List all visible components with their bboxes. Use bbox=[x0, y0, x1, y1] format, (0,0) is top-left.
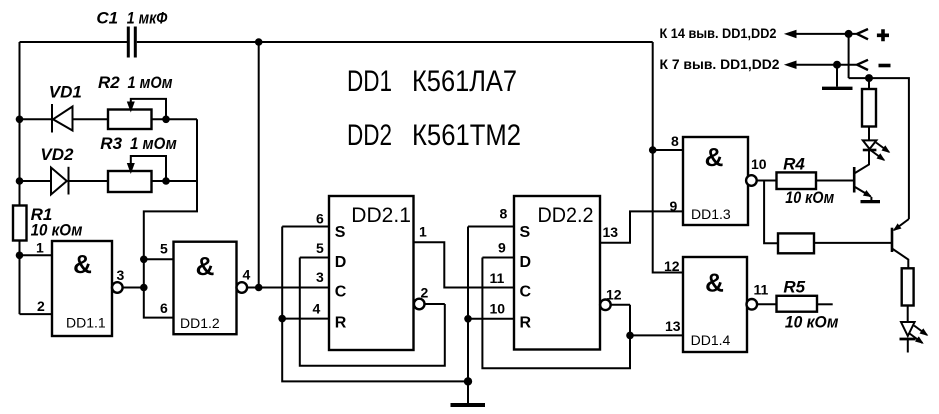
wire R6 to Q2 base bbox=[814, 242, 892, 244]
svg-text:S: S bbox=[335, 224, 346, 241]
svg-text:DD1.3: DD1.3 bbox=[691, 206, 731, 222]
ground minus bbox=[822, 87, 853, 90]
svg-text:S: S bbox=[520, 224, 531, 241]
svg-text:DD1.4: DD1.4 bbox=[691, 332, 731, 348]
gate DD1.3 labels bbox=[670, 133, 767, 222]
wire DD2.1 D stub bbox=[300, 257, 329, 259]
node R1 bottom pin1 bbox=[16, 252, 24, 260]
svg-text:К561ЛА7: К561ЛА7 bbox=[412, 65, 517, 98]
node pin3 tie bbox=[140, 284, 148, 292]
svg-text:6: 6 bbox=[160, 300, 168, 316]
wire R2 wiper arm bbox=[127, 99, 166, 119]
potentiometer R3 bbox=[108, 171, 152, 192]
minus symbol bbox=[879, 64, 891, 68]
label R3 bbox=[100, 134, 177, 153]
svg-text:12: 12 bbox=[606, 287, 622, 303]
node VD2 left bbox=[16, 177, 24, 185]
label DD2 type bbox=[347, 119, 521, 152]
svg-text:C: C bbox=[520, 284, 532, 301]
svg-text:9: 9 bbox=[670, 198, 678, 214]
transistor Q1 bbox=[854, 151, 871, 200]
gate DD1.1 bbox=[52, 241, 112, 336]
power arrow line K14 bbox=[784, 30, 857, 38]
node ground junction bbox=[464, 377, 472, 385]
node DD2.2 R tie bbox=[464, 315, 472, 323]
wire R4 to Q1 base bbox=[816, 180, 854, 182]
resistor lower right bbox=[902, 268, 914, 305]
wire DD2.2 S stub bbox=[468, 226, 514, 228]
svg-text:2: 2 bbox=[421, 284, 429, 300]
node K7 junction bbox=[833, 61, 841, 69]
gate DD1.2 labels bbox=[160, 240, 251, 331]
gate DD1.2 bbox=[174, 242, 237, 335]
resistor R6 bbox=[778, 233, 814, 253]
svg-text:&: & bbox=[73, 249, 92, 279]
wire DD2.2 D stub bbox=[482, 257, 514, 259]
power arrow line K7 bbox=[784, 61, 857, 70]
wire top horizontal bbox=[20, 41, 653, 43]
flip-flop DD2.1 labels bbox=[313, 204, 429, 332]
label DD1 type bbox=[347, 65, 517, 98]
svg-text:13: 13 bbox=[665, 318, 681, 334]
label R2 bbox=[98, 73, 173, 92]
ground Q1 emitter bbox=[861, 200, 881, 203]
potentiometer R2 bbox=[108, 110, 152, 130]
svg-text:DD1.1: DD1.1 bbox=[66, 314, 106, 330]
svg-text:2: 2 bbox=[37, 298, 45, 314]
diode VD2 bbox=[51, 167, 69, 195]
svg-text:8: 8 bbox=[671, 133, 679, 149]
label K7 bbox=[660, 56, 780, 72]
node VD1 left bbox=[16, 116, 24, 124]
svg-text:10: 10 bbox=[490, 301, 506, 317]
gate DD1.1 labels bbox=[36, 239, 125, 330]
svg-text:&: & bbox=[196, 251, 215, 281]
svg-text:&: & bbox=[705, 267, 724, 297]
svg-text:DD2.1: DD2.1 bbox=[351, 204, 411, 227]
wire pin8 stub bbox=[653, 149, 683, 151]
svg-text:VD2: VD2 bbox=[40, 145, 74, 164]
output circle DD1.3 pin10 bbox=[746, 175, 757, 186]
wire pin4 to DD2.1 C bbox=[247, 287, 329, 289]
output circle DD2.1 pin2 bbox=[414, 299, 425, 310]
svg-text:C: C bbox=[335, 284, 347, 301]
node main row bbox=[255, 284, 263, 292]
svg-text:11: 11 bbox=[490, 270, 505, 286]
wire resistor top to plus rail bbox=[868, 78, 870, 89]
contact minus bbox=[857, 60, 868, 70]
svg-text:DD1: DD1 bbox=[347, 65, 392, 98]
svg-text:6: 6 bbox=[316, 211, 324, 227]
wire pin11 to R5 bbox=[757, 303, 776, 305]
svg-text:R: R bbox=[520, 315, 532, 332]
wire minus to ground bbox=[836, 65, 838, 87]
flip-flop DD2.2 bbox=[514, 196, 600, 350]
svg-text:12: 12 bbox=[664, 258, 680, 274]
svg-text:5: 5 bbox=[160, 240, 168, 256]
output circle DD2.2 pin12 bbox=[600, 300, 611, 311]
LED VD3 emission arrows bbox=[871, 143, 889, 161]
node pin5 tie bbox=[140, 255, 148, 263]
wire pin10 branch to R6 bbox=[764, 181, 778, 244]
wire DD2.1 pin1 to DD2.2 C bbox=[414, 242, 515, 287]
svg-text:10 кОм: 10 кОм bbox=[785, 312, 839, 331]
node R3 wiper bbox=[162, 177, 170, 185]
node pin8 bbox=[649, 146, 657, 154]
wire R3 right bbox=[152, 180, 198, 182]
diode VD1 bbox=[52, 104, 73, 133]
wire DD2.2 D feedback bbox=[482, 258, 630, 369]
resistor R4 bbox=[777, 172, 817, 189]
svg-text:13: 13 bbox=[603, 224, 619, 240]
LED VD4 bbox=[900, 322, 916, 353]
svg-text:10 кОм: 10 кОм bbox=[31, 221, 83, 240]
svg-text:&: & bbox=[705, 142, 724, 172]
svg-text:3: 3 bbox=[316, 269, 324, 285]
label R4 bbox=[783, 154, 834, 207]
label K14 bbox=[660, 25, 777, 41]
wire VD2 row bbox=[20, 180, 109, 182]
svg-text:4: 4 bbox=[243, 267, 251, 283]
gate DD1.4 labels bbox=[664, 258, 769, 348]
transistor Q2 bbox=[892, 219, 909, 268]
capacitor C1 bbox=[127, 27, 137, 58]
LED VD4 emission arrows bbox=[910, 326, 928, 344]
node K14 junction bbox=[845, 30, 853, 38]
svg-text:R4: R4 bbox=[783, 154, 805, 173]
wire pin2 bbox=[20, 313, 53, 315]
ground main bbox=[451, 403, 486, 407]
output circle DD1.4 pin11 bbox=[747, 299, 758, 310]
wire VD1 row bbox=[20, 118, 109, 120]
node pin12 branch bbox=[626, 332, 634, 340]
wire left vertical bus bbox=[19, 42, 21, 314]
svg-text:8: 8 bbox=[500, 206, 508, 222]
node C1 right junction bbox=[255, 38, 263, 46]
gate DD1.4 bbox=[683, 257, 747, 352]
svg-text:К 7 выв. DD1,DD2: К 7 выв. DD1,DD2 bbox=[660, 56, 780, 72]
wire to LED2 bbox=[907, 306, 909, 323]
wire pin1 bbox=[20, 254, 53, 256]
svg-text:К 14 выв. DD1,DD2: К 14 выв. DD1,DD2 bbox=[660, 25, 777, 41]
svg-text:1 мОм: 1 мОм bbox=[130, 134, 177, 153]
svg-text:1 мОм: 1 мОм bbox=[128, 73, 173, 92]
svg-text:C1: C1 bbox=[96, 9, 118, 28]
label VD2 bbox=[40, 145, 74, 164]
svg-text:4: 4 bbox=[313, 301, 321, 317]
wire DD2.2 R stub bbox=[468, 318, 514, 320]
svg-text:R5: R5 bbox=[783, 278, 805, 297]
contact plus bbox=[857, 29, 868, 39]
svg-text:1: 1 bbox=[36, 239, 44, 255]
wire plus rail vertical bbox=[848, 34, 850, 78]
wire DD2.1 R stub bbox=[282, 318, 329, 320]
node R2 wiper bbox=[162, 116, 170, 124]
svg-text:R3: R3 bbox=[100, 134, 122, 153]
svg-text:DD2: DD2 bbox=[347, 119, 392, 152]
resistor R5 bbox=[777, 296, 818, 312]
svg-text:R2: R2 bbox=[98, 73, 120, 92]
svg-text:DD1.2: DD1.2 bbox=[180, 315, 220, 331]
svg-text:VD1: VD1 bbox=[49, 83, 82, 102]
output circle DD1.1 pin3 bbox=[112, 282, 123, 293]
gate DD1.3 bbox=[683, 137, 748, 225]
wire top bus down to DD1.3 pin8 and DD1.4 pin12 bbox=[653, 42, 683, 273]
svg-text:R: R bbox=[335, 315, 347, 332]
wire R2 right bbox=[152, 118, 198, 120]
plus symbol bbox=[877, 29, 889, 41]
wire DD2.1 SR to ground line bbox=[282, 227, 468, 382]
output circle DD1.2 pin4 bbox=[237, 282, 248, 293]
svg-text:К561ТМ2: К561ТМ2 bbox=[412, 119, 521, 152]
wire R5 right bbox=[817, 303, 833, 305]
svg-text:11: 11 bbox=[754, 281, 769, 297]
label C1 bbox=[96, 9, 168, 28]
svg-text:1: 1 bbox=[419, 224, 427, 240]
svg-text:10 кОм: 10 кОм bbox=[785, 188, 834, 207]
wire R3 wiper arm bbox=[127, 156, 166, 181]
wire pin12 to DD1.4 pin13 bbox=[630, 334, 683, 336]
node LED chain bbox=[865, 74, 873, 82]
svg-text:5: 5 bbox=[316, 240, 324, 256]
label VD1 bbox=[49, 83, 82, 102]
flip-flop DD2.2 labels bbox=[490, 204, 622, 332]
wire plus rail horizontal bbox=[849, 78, 909, 219]
wire DD2.1 D feedback bbox=[300, 258, 445, 366]
svg-text:10: 10 bbox=[751, 156, 767, 172]
label R5 bbox=[783, 278, 838, 332]
svg-text:D: D bbox=[335, 254, 347, 271]
wire C1 node down to DD1.2 output row bbox=[258, 42, 260, 288]
resistor R1 bbox=[13, 206, 27, 241]
svg-text:9: 9 bbox=[498, 240, 506, 256]
wire DD2.2 SR ground vertical bbox=[467, 227, 469, 405]
flip-flop DD2.1 bbox=[329, 196, 414, 350]
svg-text:3: 3 bbox=[117, 267, 125, 283]
wire DD1.2 pin5 stub bbox=[144, 258, 174, 260]
LED VD3 bbox=[863, 127, 877, 165]
node DD2.1 R tie bbox=[278, 315, 286, 323]
svg-text:D: D bbox=[520, 254, 532, 271]
resistor upper right bbox=[862, 89, 876, 127]
svg-text:1 мкФ: 1 мкФ bbox=[127, 9, 168, 28]
wire R2R3 net to DD1.2 inputs bbox=[144, 119, 197, 317]
label R1 bbox=[31, 205, 83, 240]
svg-text:DD2.2: DD2.2 bbox=[538, 204, 594, 227]
wire DD1.1 output to tie bbox=[123, 287, 144, 289]
wire DD2.1 S stub bbox=[282, 226, 329, 228]
wire DD2.2 pin13 to DD1.3 pin9 bbox=[600, 211, 683, 242]
wire pin10 to R4 bbox=[757, 180, 777, 182]
